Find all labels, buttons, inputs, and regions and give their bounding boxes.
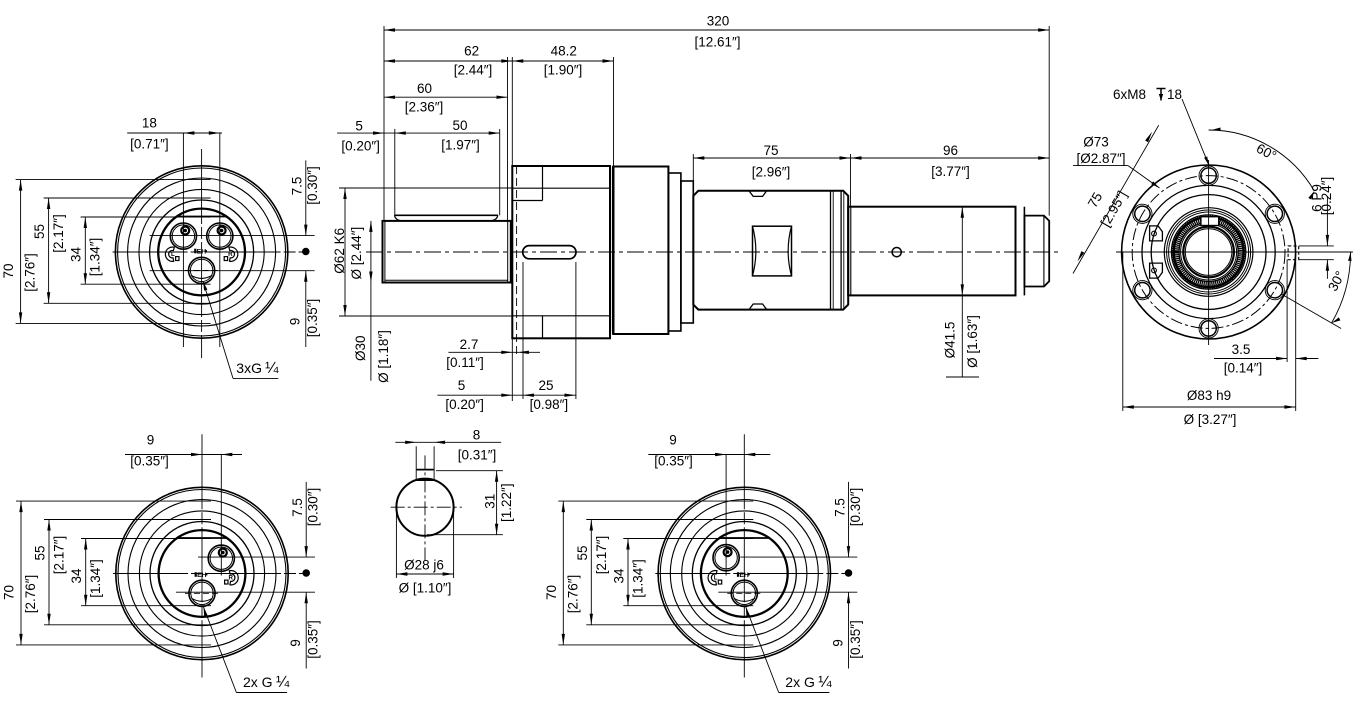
svg-text:70: 70 — [544, 585, 559, 600]
EH logo — [194, 249, 196, 254]
svg-text:EH: EH — [739, 572, 749, 579]
dimension 5 25 low — [437, 394, 576, 396]
rotation hook left — [708, 570, 717, 584]
rotation hook left — [165, 247, 174, 261]
keyway top — [416, 469, 434, 471]
svg-text:[2.17″]: [2.17″] — [51, 214, 66, 253]
flange h centerline — [1116, 251, 1353, 253]
flange v centerline — [1208, 160, 1210, 345]
svg-text:¼: ¼ — [276, 674, 290, 691]
ext line d83 left — [1122, 252, 1124, 411]
bolt hole M8 #1 — [1201, 168, 1216, 183]
dimension 75 96 — [693, 157, 1049, 159]
ext line slot right — [575, 262, 577, 399]
svg-text:R: R — [228, 251, 233, 258]
svg-text:[0.71″]: [0.71″] — [130, 137, 169, 152]
housing step circle d74 — [670, 500, 818, 648]
svg-text:[0.14″]: [0.14″] — [1224, 361, 1263, 376]
groove ring line b — [840, 191, 842, 310]
svg-text:50: 50 — [452, 118, 467, 133]
svg-text:[0.98″]: [0.98″] — [530, 397, 569, 412]
dimension 55 [2.17"] — [590, 520, 592, 625]
vertical centerline — [201, 149, 203, 358]
svg-text:[0.35″]: [0.35″] — [654, 454, 693, 469]
bolt hole M8 #3 — [1267, 283, 1282, 298]
bore circle thick — [1183, 227, 1234, 278]
flange circle d64 — [1142, 185, 1275, 318]
port face flat chord — [177, 537, 227, 539]
wrench flat square — [753, 226, 792, 276]
leader 2xG1/4 — [204, 607, 208, 616]
tip thread line — [1043, 216, 1045, 287]
key top edge — [394, 214, 498, 216]
housing step circle d52 — [692, 522, 796, 626]
leader 3xG1/4 — [203, 282, 207, 291]
G1/4 port right — [207, 223, 233, 249]
svg-text:5: 5 — [458, 378, 466, 393]
dimension 18 top — [127, 132, 222, 134]
svg-text:34: 34 — [611, 568, 626, 584]
svg-text:L: L — [171, 251, 175, 258]
svg-text:Ø [1.18″]: Ø [1.18″] — [376, 330, 391, 383]
shaft chamfer left — [384, 221, 386, 283]
ext line slot left — [522, 262, 524, 399]
svg-text:55: 55 — [575, 545, 590, 560]
svg-text:Ø83 h9: Ø83 h9 — [1187, 388, 1231, 403]
section view d28 — [391, 428, 514, 596]
ext line 507.5 — [507, 57, 509, 221]
dimension 7.5 / 9 right — [305, 482, 307, 557]
svg-text:[2.76″]: [2.76″] — [23, 575, 38, 614]
dimension 2.7 — [448, 351, 540, 353]
G1/4 port left — [170, 223, 196, 249]
main centerline — [366, 251, 1062, 253]
svg-text:2x G: 2x G — [785, 674, 815, 690]
vertical centerline — [201, 434, 203, 677]
bolt circle dashdot — [1132, 176, 1285, 329]
key end arc right — [491, 215, 498, 221]
port face flat chord — [176, 216, 226, 218]
dimension 75 diagonal — [1073, 125, 1159, 273]
cylinder d41.5 — [848, 207, 1015, 296]
svg-text:320: 320 — [707, 14, 730, 29]
horizontal centerline — [113, 251, 306, 253]
svg-text:55: 55 — [32, 224, 47, 239]
svg-text:[1.97″]: [1.97″] — [441, 138, 480, 153]
svg-text:Ø [1.10″]: Ø [1.10″] — [399, 581, 452, 596]
bearing circle 3 — [1169, 212, 1249, 292]
shaft chamfer bottom — [385, 279, 508, 281]
svg-text:3xG: 3xG — [236, 360, 262, 376]
svg-text:62: 62 — [464, 44, 479, 59]
svg-text:96: 96 — [943, 143, 958, 158]
cylinder notch top — [749, 191, 767, 197]
svg-text:[0.35″]: [0.35″] — [848, 620, 863, 659]
groove ring line a — [830, 191, 832, 310]
svg-text:18: 18 — [1167, 87, 1182, 102]
step face line — [850, 207, 852, 296]
threaded tip — [1024, 216, 1049, 287]
dimension 320 — [384, 29, 1049, 31]
dimension 9 top — [125, 454, 242, 456]
bore circle inner — [1185, 229, 1232, 276]
shaft d30 body — [383, 221, 511, 283]
shaft chamfer right — [507, 221, 509, 283]
ext line 850.5 — [850, 154, 852, 207]
cylinder 75 outline — [693, 191, 848, 310]
EH logo — [737, 572, 739, 577]
svg-text:31: 31 — [483, 494, 498, 509]
end ring line — [1015, 207, 1017, 296]
housing body — [613, 167, 668, 335]
housing step circle d74 — [128, 178, 276, 326]
outer housing circle inner — [118, 168, 286, 336]
end ring line 2 — [1023, 207, 1025, 296]
G1/4 port upper right — [208, 545, 234, 571]
svg-text:60: 60 — [417, 81, 432, 96]
flange notch vertical bottom — [542, 316, 544, 339]
dimension 34 [1.34"] — [84, 217, 86, 284]
dimension d28 j6 — [396, 573, 453, 575]
G1/4 port bottom — [189, 580, 215, 606]
svg-text:[0.30″]: [0.30″] — [305, 166, 320, 205]
svg-text:[2.17″]: [2.17″] — [52, 536, 67, 575]
svg-text:Ø41.5: Ø41.5 — [943, 322, 958, 359]
dimension 70 [2.76"] — [562, 501, 564, 645]
wrench flat arc left — [753, 226, 756, 276]
ext line keyway b — [1295, 252, 1297, 411]
housing ring 1 — [668, 173, 681, 331]
dimension d83 — [1123, 406, 1296, 408]
svg-text:75: 75 — [763, 143, 778, 158]
toothed ring mid dark — [1174, 217, 1244, 287]
svg-text:¼: ¼ — [818, 674, 832, 691]
flange view — [1073, 87, 1353, 427]
housing step circle d52 — [150, 200, 254, 304]
svg-text:[2.76″]: [2.76″] — [23, 253, 38, 292]
flange circle d55 — [1151, 195, 1266, 310]
EH logo — [195, 572, 197, 577]
svg-text:¼: ¼ — [265, 360, 279, 377]
svg-text:48.2: 48.2 — [551, 44, 577, 59]
svg-text:9: 9 — [288, 639, 303, 647]
svg-text:[1.34″]: [1.34″] — [88, 238, 103, 277]
keyway side left — [415, 446, 417, 480]
outer housing circle — [658, 487, 830, 659]
dimension 30 deg — [1281, 294, 1341, 329]
housing step circle d62 — [139, 189, 264, 314]
bearing circle outer — [1164, 208, 1253, 297]
svg-text:[0.31″]: [0.31″] — [458, 448, 497, 463]
dimension 60 — [384, 96, 508, 98]
svg-text:55: 55 — [33, 545, 48, 560]
svg-text:[0.20″]: [0.20″] — [445, 397, 484, 412]
svg-text:[2.17″]: [2.17″] — [594, 536, 609, 575]
svg-text:Ø [1.63″]: Ø [1.63″] — [965, 315, 980, 368]
svg-text:[0.35″]: [0.35″] — [306, 620, 321, 659]
svg-text:70: 70 — [1, 263, 16, 278]
dimension 3.5 — [1214, 358, 1287, 360]
G1/4 port bottom — [189, 257, 215, 283]
ext line 693.3 — [692, 154, 694, 191]
dimension 31 — [496, 471, 498, 535]
keyway slot — [523, 246, 576, 259]
shaft circle d28 — [396, 479, 453, 536]
section h centerline — [391, 506, 462, 508]
svg-text:25: 25 — [538, 378, 553, 393]
key end arc left — [394, 215, 401, 221]
outer housing circle inner — [118, 490, 286, 658]
svg-text:Ø30: Ø30 — [353, 335, 368, 361]
bore keyway notch — [1201, 217, 1219, 226]
housing step circle d62 — [139, 511, 264, 636]
svg-text:2x G: 2x G — [243, 674, 273, 690]
flange notch horizontal — [512, 200, 542, 202]
dimension 6P9 — [1299, 245, 1334, 247]
bottom-right view — [544, 433, 863, 693]
radial hole — [892, 248, 901, 257]
svg-text:[2.96″]: [2.96″] — [752, 165, 791, 180]
stop bracket upper — [1150, 226, 1163, 241]
housing front face thick — [612, 167, 615, 335]
port face circle thick — [701, 530, 788, 617]
dim line d41.5 base — [946, 376, 979, 378]
cylinder notch bottom — [749, 304, 767, 310]
dimension d62 K6 — [344, 188, 346, 316]
flange notch vertical — [542, 166, 544, 201]
ext line 512.3 low — [511, 338, 513, 401]
svg-text:8: 8 — [473, 428, 481, 443]
dimension 9 top — [648, 454, 770, 456]
svg-text:Ø [2.44″]: Ø [2.44″] — [349, 227, 364, 280]
port face circle thick — [159, 530, 246, 617]
dimension 34 [1.34"] — [627, 539, 629, 606]
svg-text:[3.77″]: [3.77″] — [931, 164, 970, 179]
vertical centerline — [743, 434, 745, 677]
rotation hook right — [229, 247, 238, 261]
ext line keyway a — [1286, 260, 1288, 362]
dimension 55 [2.17"] — [48, 520, 50, 625]
keyway chord — [416, 479, 434, 481]
dimension 60 deg arc — [1209, 130, 1315, 191]
svg-text:18: 18 — [142, 116, 157, 131]
horizontal centerline — [113, 573, 306, 575]
svg-text:Ø73: Ø73 — [1083, 134, 1109, 149]
svg-text:[0.35″]: [0.35″] — [130, 454, 169, 469]
ext line 1049.2 — [1048, 26, 1050, 216]
bore circle mid — [1181, 224, 1237, 280]
svg-text:[0.24″]: [0.24″] — [1319, 177, 1334, 216]
svg-text:Ø [3.27″]: Ø [3.27″] — [1184, 412, 1237, 427]
svg-text:EH: EH — [197, 572, 207, 579]
toothed ring inner — [1179, 223, 1238, 282]
svg-text:9: 9 — [147, 433, 155, 448]
toothed ring outer — [1171, 215, 1245, 289]
svg-text:L: L — [714, 574, 718, 581]
dimension d41.5 — [961, 207, 963, 377]
housing ring 2 — [681, 181, 693, 323]
svg-text:3.5: 3.5 — [1232, 342, 1251, 357]
flange d62 bottom line — [512, 315, 610, 317]
G1/4 port bottom — [731, 580, 757, 606]
ext line 499.7 — [499, 129, 501, 215]
ext line 613.5 — [613, 57, 615, 167]
dimension 5 and 50 — [337, 132, 500, 134]
wrench flat arc right — [788, 226, 791, 276]
dimension 70 [2.76"] — [20, 180, 22, 324]
section v centerline — [424, 455, 426, 560]
svg-text:9: 9 — [830, 639, 845, 647]
dimension d30 — [370, 221, 372, 381]
svg-text:9: 9 — [288, 318, 303, 326]
keyway 6P9 hidden rect — [1288, 246, 1299, 260]
svg-text:[2.44″]: [2.44″] — [454, 63, 493, 78]
ext line 384 — [383, 26, 385, 221]
svg-text:9: 9 — [669, 433, 677, 448]
stop bracket lower — [1150, 263, 1163, 278]
svg-text:[1.22″]: [1.22″] — [499, 483, 514, 522]
dimension 55 [2.17"] — [48, 198, 50, 303]
keyway side right — [433, 446, 435, 480]
svg-text:34: 34 — [69, 568, 84, 584]
svg-text:Ø62 K6: Ø62 K6 — [332, 228, 347, 274]
flange hidden line — [516, 166, 518, 356]
outer housing circle — [116, 487, 288, 659]
leader d73 — [1128, 166, 1160, 188]
bearing circle 2 — [1167, 210, 1251, 294]
svg-text:[0.20″]: [0.20″] — [341, 139, 380, 154]
svg-text:7.5: 7.5 — [290, 177, 305, 196]
svg-text:EH: EH — [197, 248, 207, 255]
leader 2xG1/4 — [746, 607, 750, 616]
front view top-left — [1, 116, 320, 379]
dimension 8 — [395, 441, 501, 443]
leader 6xM8 — [1182, 99, 1209, 166]
svg-text:[0.35″]: [0.35″] — [305, 299, 320, 338]
dimension 70 [2.76"] — [20, 501, 22, 645]
housing step circle d74 — [128, 500, 276, 648]
side view — [332, 14, 1062, 412]
svg-text:[2.76″]: [2.76″] — [565, 575, 580, 614]
svg-text:[0.30″]: [0.30″] — [306, 488, 321, 527]
bottom-left view — [2, 433, 321, 693]
svg-text:[0.30″]: [0.30″] — [848, 488, 863, 527]
outer housing circle inner — [660, 490, 828, 658]
svg-text:[Ø2.87″]: [Ø2.87″] — [1076, 151, 1125, 166]
bolt hole M8 #4 — [1201, 321, 1216, 336]
G1/4 port upper left — [713, 545, 739, 571]
svg-text:2.7: 2.7 — [460, 337, 479, 352]
svg-text:6xM8: 6xM8 — [1113, 87, 1146, 102]
dimension 34 [1.34"] — [85, 539, 87, 606]
svg-text:[0.11″]: [0.11″] — [446, 355, 484, 370]
dimension 7.5 / 9 right — [305, 160, 307, 235]
svg-text:5: 5 — [355, 119, 363, 134]
bolt hole M8 #6 — [1135, 206, 1150, 221]
svg-text:70: 70 — [2, 585, 17, 600]
label d73 underline — [1073, 165, 1128, 167]
svg-text:[1.34″]: [1.34″] — [630, 559, 645, 598]
port face circle thick — [158, 209, 245, 296]
svg-text:[12.61″]: [12.61″] — [694, 35, 740, 50]
bolt hole M8 #2 — [1267, 206, 1282, 221]
flange plate — [512, 166, 610, 338]
housing step circle d62 — [682, 511, 807, 636]
ext line 512.3 — [511, 57, 513, 166]
svg-text:34: 34 — [69, 247, 84, 263]
housing step circle d52 — [150, 522, 254, 626]
flange outer circle d83 — [1122, 165, 1296, 339]
ext line 394.8 — [394, 129, 396, 215]
horizontal centerline — [655, 573, 848, 575]
svg-text:Ø28 j6: Ø28 j6 — [404, 558, 444, 573]
dimension 7.5 / 9 right — [848, 482, 850, 557]
toothed ring hatch — [1238, 251, 1246, 253]
svg-text:[2.36″]: [2.36″] — [405, 100, 444, 115]
rotation hook right — [229, 570, 238, 584]
svg-text:7.5: 7.5 — [290, 498, 305, 517]
svg-text:7.5: 7.5 — [832, 498, 847, 517]
bolt hole M8 #5 — [1135, 283, 1150, 298]
svg-text:R: R — [228, 574, 233, 581]
flange d62 top line — [512, 187, 610, 189]
svg-text:[1.34″]: [1.34″] — [88, 559, 103, 598]
port face flat chord — [719, 537, 769, 539]
svg-text:[1.90″]: [1.90″] — [544, 63, 583, 78]
outer housing circle — [115, 166, 287, 338]
dimension 62 48.2 — [384, 60, 614, 62]
